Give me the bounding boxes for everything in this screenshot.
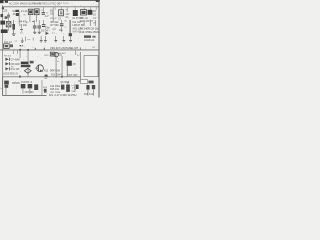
svg-text:R11 1k5: R11 1k5 (11, 68, 20, 71)
transistor Q6 (4, 81, 9, 85)
wire vertical x8.5 (7, 20, 10, 31)
svg-text:RL1 12: RL1 12 (4, 41, 12, 44)
resistor R14 block (34, 84, 38, 90)
wire stub x95 (94, 20, 97, 26)
wire vertical x62 down (61, 56, 64, 78)
svg-text:SW 2P: SW 2P (50, 18, 57, 20)
wire speckle texture (4, 2, 98, 94)
ground left rail (12, 33, 15, 36)
wire rail x13.5 (12, 20, 15, 34)
capacitor C15 small (20, 25, 23, 29)
node tick x33 (32, 38, 35, 41)
svg-text:R12: R12 (44, 71, 49, 73)
capacitor C9 (60, 20, 63, 24)
wire left rail (1, 5, 4, 77)
ground stub x41 (40, 36, 43, 40)
svg-text:220: 220 (3, 10, 8, 13)
wire mid bus (0, 49, 99, 52)
wire stub x90 (89, 20, 92, 26)
svg-text:LED1 RED 2V: LED1 RED 2V (3, 72, 19, 75)
wire top bus (2, 5, 99, 8)
capacitor C5 electrolytic (32, 21, 34, 22)
node junction lower x20 (19, 76, 21, 78)
text driver block (21, 62, 29, 65)
diode block D1 (73, 10, 78, 16)
diode D4 arrow (46, 32, 50, 35)
relay RL1 box (4, 44, 10, 49)
wire vertical x36 (35, 15, 38, 22)
diode D8 (5, 62, 8, 65)
transistor Q5 block (67, 61, 72, 66)
text margin label (1, 14, 4, 17)
svg-text:2N3055 x2: 2N3055 x2 (21, 82, 33, 84)
resistor R16 vertical hatched (67, 82, 70, 85)
svg-text:D7 4148: D7 4148 (11, 58, 21, 61)
node contact marks right (20, 45, 22, 46)
wire vertical x20 down (19, 50, 22, 58)
wire vertical x56 down (55, 57, 58, 78)
capacitor C12 (86, 85, 89, 90)
ground stub x22 (21, 38, 24, 41)
wire stub x75 top (74, 7, 77, 10)
wire stub x25.5 (24, 37, 27, 42)
capacitor C2 drop (42, 7, 45, 12)
svg-text:SER 2 PSU: SER 2 PSU (58, 3, 69, 5)
wire stub x84 (83, 20, 86, 26)
wire stub x96 top (95, 7, 98, 10)
ground stub x63.5 (62, 36, 65, 40)
text marks right (88, 81, 93, 84)
wire stub x67 top (66, 7, 69, 10)
ground stub x45 (44, 36, 47, 40)
svg-text:1N: 1N (11, 67, 14, 69)
resistor R17 block (61, 85, 64, 90)
node tick x80 above bus (79, 47, 82, 49)
wire vertical x67 (66, 66, 69, 77)
wire stub x84 top (83, 7, 86, 9)
diode D10 diamond (24, 68, 31, 73)
svg-text:BR1 4A: BR1 4A (80, 17, 88, 20)
wire stub x55 top (54, 7, 57, 10)
svg-text:VR1 4k7 LIN PANEL MT: VR1 4k7 LIN PANEL MT (50, 46, 79, 50)
transistor Q2 circle (54, 52, 58, 56)
resistor R2 vertical (12, 24, 15, 30)
capacitor C3 inside (60, 11, 62, 14)
svg-text:D3 D4: D3 D4 (41, 29, 48, 32)
svg-text:R8 240R C8 10u: R8 240R C8 10u (80, 26, 100, 30)
relay box K1 (6, 22, 11, 27)
wire vertical x74.6 (74, 84, 77, 92)
text corner stamp (0, 0, 4, 3)
wire vertical x19 (18, 11, 21, 24)
capacitor C4 block (88, 10, 93, 15)
contact marks (10, 44, 13, 47)
svg-text:FIG. 2-17 0-30V 2A PSU: FIG. 2-17 0-30V 2A PSU (49, 94, 77, 97)
wire lower bus (2, 75, 81, 78)
wire stub x13.5 below bus (12, 50, 15, 54)
capacitor C8 small (42, 20, 45, 24)
diode D9 (5, 67, 8, 70)
node enclosure box right (84, 56, 98, 77)
ground for C6 (38, 31, 41, 34)
node tick x44 bus (44, 48, 45, 50)
node junction x62 (61, 76, 63, 78)
svg-text:0R47 5W: 0R47 5W (50, 69, 61, 72)
svg-text:LOAD 2A: LOAD 2A (84, 39, 95, 42)
transformer T1 primary box (28, 9, 33, 14)
svg-text:BD139: BD139 (12, 82, 20, 85)
capacitor C14 blob (76, 85, 79, 89)
transistor Q8 (28, 84, 33, 88)
svg-text:F1 2A: F1 2A (21, 10, 28, 13)
capacitor C13 (92, 85, 95, 89)
ground stub x70.3 (69, 36, 72, 40)
capacitor C1 (7, 13, 10, 15)
svg-text:2A: 2A (65, 16, 68, 19)
border right (99, 0, 100, 98)
node junction x20 (19, 49, 21, 51)
svg-text:SEC 18V CT: SEC 18V CT (80, 21, 94, 23)
border top (0, 0, 100, 2)
op-amp U2 box (50, 52, 54, 56)
wire stub x90 top (89, 7, 92, 10)
switch S1 (15, 10, 19, 12)
background paper (0, 0, 100, 100)
wire vertical x41.6 (41, 80, 44, 95)
wire vertical x28 down (27, 50, 30, 77)
wire stub x75.5 below bus (74, 50, 77, 55)
node bottom-left box (3, 77, 47, 95)
svg-text:0R1 0R1: 0R1 0R1 (25, 92, 35, 94)
wire vertical x29.6 (29, 15, 32, 22)
ground stub x55.5 (54, 36, 57, 40)
wire vertical x80.5 (79, 52, 82, 80)
node tick x35 (34, 48, 37, 50)
wire stub x61 top (60, 7, 63, 10)
node junction marks (45, 75, 48, 77)
regulator box U1 (81, 10, 87, 15)
svg-text:Q9 3055: Q9 3055 (60, 82, 70, 84)
resistor R14 body (44, 89, 47, 93)
wire vertical x53 (52, 7, 55, 22)
node small box bottom right (81, 80, 88, 84)
node junction x28 (27, 49, 29, 51)
transistor Q7 (21, 84, 26, 88)
wire stub x17.5 below bus (16, 50, 19, 54)
wire rail x70 (70, 20, 71, 36)
transistor Q4 (37, 65, 44, 72)
node junction x70 (69, 33, 72, 36)
svg-text:C7 10n: C7 10n (19, 24, 28, 27)
svg-text:R9 3k3: R9 3k3 (4, 55, 12, 57)
border corner right blob (96, 0, 100, 2)
wire into Q4 (35, 67, 38, 70)
rectifier box BR1 (59, 10, 64, 16)
ground for C5 (33, 31, 36, 34)
diode D7 (5, 58, 8, 61)
capacitor C6 electrolytic (38, 20, 41, 26)
svg-text:C10 4700u 35Vw: C10 4700u 35Vw (80, 30, 100, 34)
text margin block (0, 21, 5, 25)
svg-text:R7 560: R7 560 (51, 24, 60, 27)
node junction left top (2, 7, 4, 9)
transformer T1 secondary box (34, 9, 39, 15)
svg-text:R15 10k: R15 10k (50, 88, 60, 91)
svg-text:R16 C12: R16 C12 (84, 94, 94, 96)
text under band (84, 35, 91, 37)
svg-text:D8 4148: D8 4148 (11, 63, 21, 66)
